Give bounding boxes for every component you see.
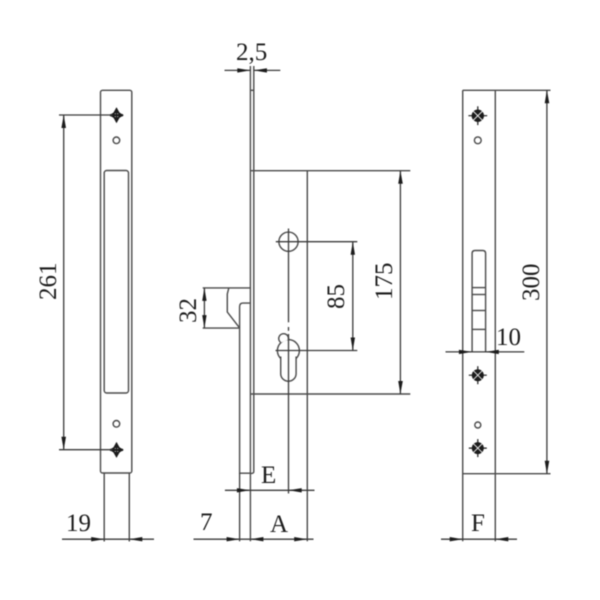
left view: top small hole (113, 137, 120, 144)
right view: body left edge (462, 90, 464, 541)
right view: hook bolt rung 3 (472, 310, 486, 312)
dimension 300 arrow down (545, 461, 550, 474)
dimension 2,5 line (225, 69, 251, 71)
svg-text:300: 300 (518, 264, 545, 302)
middle view: cylinder keyhole circle (277, 340, 299, 362)
middle view: faceplate edge right line (250, 66, 253, 473)
dimension A arrow left (250, 537, 263, 541)
left view: faceplate outer rectangle (101, 90, 132, 473)
dimension 175 line (399, 171, 401, 394)
dimension 2,5 arrow left (237, 68, 250, 72)
dimension 32 arrow down (202, 315, 206, 328)
middle view: lock case right edge with extension down (306, 171, 308, 542)
svg-text:10: 10 (496, 324, 521, 351)
right view: hook bolt rung 1 (472, 287, 486, 289)
svg-text:85: 85 (323, 284, 350, 309)
dimension 7 and A line (194, 538, 314, 540)
right view: hook bolt rung 4 (472, 328, 486, 330)
svg-text:F: F (471, 510, 485, 537)
middle view: faceplate top end tick (250, 89, 253, 91)
middle view: lock case bottom edge with 175 extension (251, 393, 411, 395)
left view: bottom screw (109, 442, 124, 458)
right view: bottom small hole (475, 422, 481, 428)
right view: body bottom edge with 300 extension (463, 473, 551, 475)
right view: hook bolt rung 2 (472, 294, 486, 296)
left view: lower strip right edge (128, 473, 130, 542)
dimension 175 arrow down (398, 381, 403, 394)
middle view: faceplate edge left line (249, 66, 251, 541)
dimension 19 line (62, 538, 154, 540)
svg-text:7: 7 (200, 509, 213, 536)
middle view: lock case top edge with 175 extension (251, 170, 411, 172)
dimension 7 arrow (227, 537, 240, 541)
dimension E arrow left (237, 488, 250, 492)
dimension 10 line (446, 351, 525, 353)
right view: middle screw (469, 366, 487, 384)
dimension 85 arrow down (351, 338, 355, 351)
dimension 32 arrow up (202, 288, 206, 301)
middle view: pull bar extension line to dimension 7 (239, 473, 241, 541)
right view: body right edge (494, 90, 496, 541)
svg-text:E: E (261, 462, 276, 489)
dimension E line (225, 489, 315, 491)
left view: bottom small hole (113, 421, 120, 428)
middle view: vertical center line dash-dot (288, 229, 290, 494)
dimension 261 arrow down (61, 437, 66, 450)
right view: body top edge with 300 extension (463, 89, 551, 91)
left view: lower strip left edge (103, 473, 105, 542)
svg-text:175: 175 (371, 263, 398, 301)
dimension 261 extension line top (59, 114, 113, 116)
svg-text:261: 261 (35, 263, 62, 301)
middle view: latch hook profile line (227, 288, 239, 328)
middle view: cylinder keyhole stem (281, 357, 296, 382)
middle view: latch hook bottom edge with 32 extension (203, 327, 240, 329)
dimension 261 arrow up (61, 115, 66, 128)
dimension F line (441, 538, 517, 540)
dimension 19 arrow right (129, 537, 142, 541)
middle view: spindle hole (279, 232, 298, 251)
middle view: cylinder keyhole tab (279, 334, 289, 343)
middle view: pull bar with rounded top corner (240, 303, 251, 473)
dimension A arrow right (294, 537, 307, 541)
middle view: latch hook top edge with 32 extension (203, 287, 251, 289)
dimension 300 arrow up (545, 90, 550, 103)
dimension 19 arrow left (91, 537, 104, 541)
dimension 10 arrow right (486, 350, 499, 354)
dimension F arrow left (450, 537, 463, 541)
dimension 85 line (352, 242, 354, 351)
dimension E arrow right (289, 488, 302, 492)
middle view: spindle hole horizontal axis with 85 extension (276, 241, 358, 243)
middle view: keyhole horizontal axis with 85 extension (276, 350, 358, 352)
dimension 32 line (203, 288, 205, 328)
right view: bottom screw (469, 439, 487, 457)
svg-text:32: 32 (175, 298, 202, 323)
svg-text:A: A (270, 511, 288, 538)
dimension 85 arrow up (351, 242, 355, 255)
dimension 261 line (63, 115, 65, 450)
right view: hook bolt slot (472, 251, 486, 352)
left view: top screw (109, 107, 124, 123)
dimension F arrow right (495, 537, 508, 541)
dimension 261 extension line bottom (59, 449, 113, 451)
dimension 2,5 arrow right (254, 68, 267, 72)
svg-text:19: 19 (66, 510, 91, 537)
dimension 175 arrow up (398, 171, 403, 184)
right view: top screw (468, 106, 487, 125)
dimension 10 arrow left (459, 350, 472, 354)
svg-text:2,5: 2,5 (236, 39, 267, 66)
right view: top small hole (474, 137, 481, 144)
left view: recessed inner plate (104, 171, 128, 394)
dimension 300 line (546, 90, 548, 473)
